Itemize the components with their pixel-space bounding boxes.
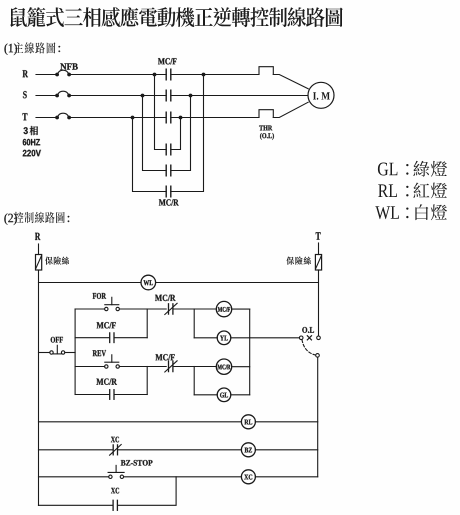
wire right rail lower xyxy=(317,357,319,477)
wire S tap down xyxy=(143,96,167,171)
contact label XC holding xyxy=(111,488,119,494)
wire box right vertical lower xyxy=(146,367,148,395)
wire junction down to GL xyxy=(193,367,195,395)
contact MC/R NC interlock xyxy=(165,303,177,314)
contact label MC/F interlock xyxy=(156,354,175,360)
pushbutton label FOR xyxy=(93,293,107,299)
wire GL branch left xyxy=(194,394,217,396)
wire row4 right xyxy=(114,394,147,396)
pushbutton BZ-STOP (NC) xyxy=(108,465,124,478)
junction S left xyxy=(141,94,145,98)
lamp GL xyxy=(217,388,231,402)
breaker NFB pole S xyxy=(55,91,71,97)
pushbutton REV (NO) xyxy=(105,355,120,368)
wire bottom row left xyxy=(39,504,113,506)
wire BZ row left xyxy=(39,449,114,451)
wire T to motor xyxy=(273,102,308,117)
contact label MC/F holding xyxy=(97,322,116,328)
wire row1 to interlock xyxy=(147,308,166,310)
wire BZ row right xyxy=(255,449,317,451)
wire bottom row right xyxy=(118,477,177,506)
contact label MC/R holding xyxy=(96,379,117,385)
wire RL row right xyxy=(255,421,317,423)
pushbutton OFF (NC) xyxy=(50,345,65,354)
wire R line start xyxy=(36,74,57,76)
wire right parallel vertical xyxy=(249,309,251,395)
wire R to motor xyxy=(273,75,308,89)
junction S right xyxy=(189,94,193,98)
contact label XC xyxy=(111,437,119,443)
breaker label NFB xyxy=(60,63,78,69)
wire RL row left xyxy=(39,421,242,423)
contact MC/F pole R xyxy=(166,69,171,80)
buzzer BZ xyxy=(241,443,255,457)
wire R tap down xyxy=(155,75,167,150)
fuse right 保險絲 xyxy=(315,255,321,271)
breaker NFB pole T xyxy=(55,113,71,119)
wire XC row mid xyxy=(124,476,242,478)
section label (1)主線路圖: xyxy=(5,42,61,55)
motor I.M xyxy=(308,82,334,108)
wire R to fuse xyxy=(38,244,40,255)
legend RL：紅燈 xyxy=(378,183,447,199)
thermal element THR pole R xyxy=(259,67,273,75)
coil MC/F xyxy=(216,301,231,316)
wire row3 left xyxy=(75,366,105,368)
fuse left label 保險絲 xyxy=(45,257,69,265)
wire GL to right vertical xyxy=(231,394,250,396)
contactor label MC/F main xyxy=(158,58,177,64)
junction R right xyxy=(202,73,206,77)
fuse left 保險絲 xyxy=(36,255,42,271)
wire interlock to coil xyxy=(173,308,216,310)
legend GL：綠燈 xyxy=(378,161,447,177)
contactor label MC/R main xyxy=(159,199,179,205)
junction T right xyxy=(179,116,183,120)
wire coil MC/R to right xyxy=(232,366,250,368)
contact MC/R row2 xyxy=(166,165,171,176)
wire row1 left xyxy=(75,308,105,310)
wire BZ row mid xyxy=(118,449,242,451)
wire REV to box right xyxy=(119,366,147,368)
wire top bus left xyxy=(39,282,142,284)
coil MC/R xyxy=(216,359,231,374)
wire R to MC/F xyxy=(69,74,166,76)
fuse right label 保險絲 xyxy=(286,257,311,265)
thermal relay label THR (O.L) xyxy=(259,126,274,140)
wire XC row right xyxy=(255,476,317,478)
lamp RL xyxy=(241,415,255,429)
wire OFF to box xyxy=(65,352,75,354)
wire FOR to box right xyxy=(119,308,147,310)
wire row4 left xyxy=(75,394,109,396)
pushbutton label OFF xyxy=(51,337,63,343)
wire row3 to interlock xyxy=(147,366,166,368)
thermal element THR pole T xyxy=(259,110,273,118)
wire interlock to coil MC/R xyxy=(173,366,216,368)
contact MC/F pole S xyxy=(166,90,171,101)
contact MC/R row3 xyxy=(166,186,171,197)
wire row1 to T tap xyxy=(171,118,181,150)
wire junction down to YL xyxy=(193,309,195,338)
node R control label xyxy=(35,233,40,240)
contact MC/F pole T xyxy=(166,112,171,123)
breaker NFB pole R xyxy=(55,70,71,76)
contact MC/R holding xyxy=(110,390,114,400)
node T control label xyxy=(316,232,321,239)
pushbutton FOR (NO) xyxy=(105,297,120,310)
contact label MC/R interlock xyxy=(155,295,176,301)
wire left rail xyxy=(38,270,40,506)
wire rail to OFF xyxy=(39,352,50,354)
wire T to fuse xyxy=(318,243,320,255)
wire T after contact xyxy=(171,117,259,119)
wire coil MC/F to right xyxy=(232,308,250,310)
node R phase label xyxy=(23,70,29,77)
wire row2 to S tap xyxy=(171,96,191,171)
wire S to motor xyxy=(171,95,307,97)
wire box right vertical upper xyxy=(146,309,148,338)
node T phase label xyxy=(23,113,28,120)
wire S line start xyxy=(36,95,57,97)
junction T left xyxy=(131,116,135,120)
wire T line start xyxy=(36,117,57,119)
contact MC/F NC interlock xyxy=(165,361,177,372)
overload contact O.L xyxy=(299,336,320,358)
pushbutton label REV xyxy=(93,350,106,356)
lamp YL xyxy=(217,331,231,345)
wire row2 right xyxy=(114,337,147,339)
wire right rail upper xyxy=(318,270,320,336)
wire top bus right xyxy=(156,282,319,284)
relay XC xyxy=(241,470,255,484)
wire box left vertical xyxy=(74,309,76,395)
lamp WL xyxy=(141,275,156,290)
junction R left xyxy=(153,73,157,77)
contact XC NC xyxy=(110,445,122,456)
wire R after contact xyxy=(171,74,259,76)
wire row2 left xyxy=(75,337,109,339)
wire S to MC/F xyxy=(69,95,166,97)
pushbutton label BZ-STOP xyxy=(121,460,153,466)
wire T to MC/F xyxy=(69,117,166,119)
section label (2)控制線路圖: xyxy=(4,212,69,225)
wire XC row left xyxy=(39,476,109,478)
overload label O.L xyxy=(302,327,314,333)
contact MC/F holding xyxy=(110,333,114,343)
contact MC/R row1 xyxy=(166,144,171,155)
contact XC holding xyxy=(113,500,117,510)
wire YL branch left xyxy=(194,337,217,339)
node S phase label xyxy=(23,91,27,98)
wire to O.L contact xyxy=(250,337,300,339)
source label 3相 60HZ 220V xyxy=(23,126,41,156)
title 鼠籠式三相感應電動機正逆轉控制線路圖 xyxy=(10,7,343,27)
wire row3 to R tap xyxy=(171,75,204,192)
wire YL to right vertical xyxy=(231,337,250,339)
wire T tap down xyxy=(133,118,167,192)
legend WL：白燈 xyxy=(375,204,447,220)
